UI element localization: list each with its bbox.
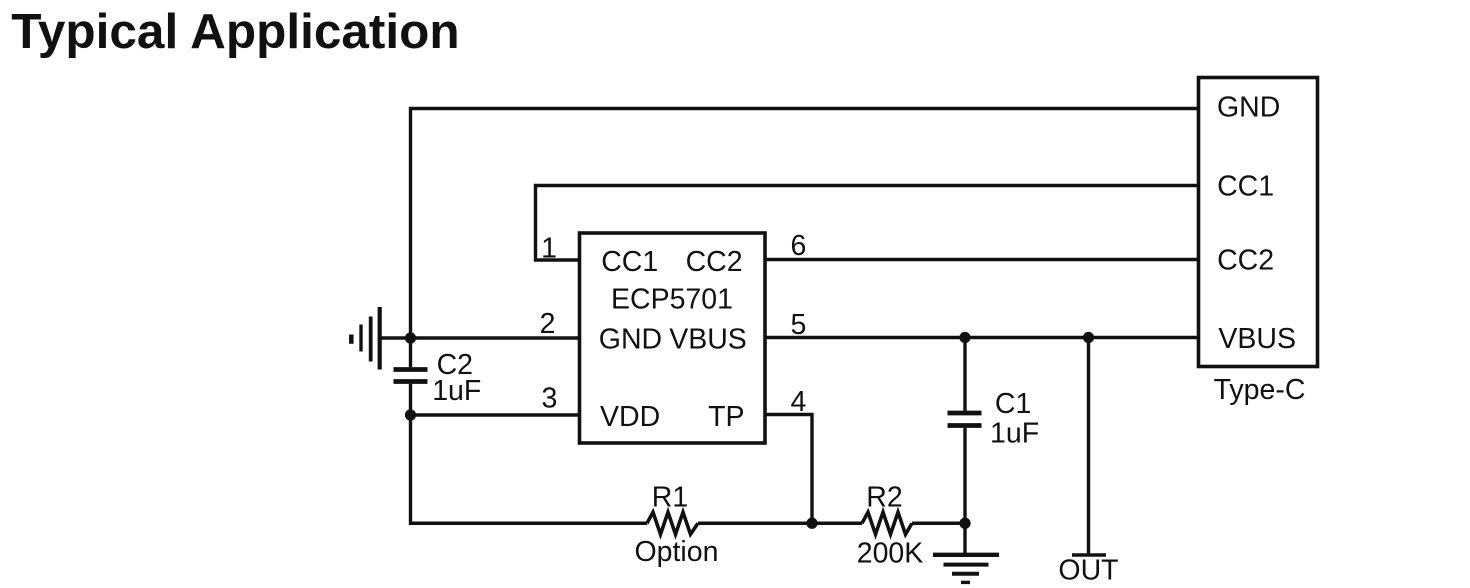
svg-text:Typical Application: Typical Application [11,4,459,59]
svg-text:CC1: CC1 [601,246,658,278]
svg-text:200K: 200K [857,538,924,570]
svg-text:VBUS: VBUS [1218,323,1296,355]
svg-text:GND: GND [1217,92,1280,124]
svg-text:1uF: 1uF [990,418,1039,450]
svg-text:CC2: CC2 [686,246,743,278]
svg-text:CC1: CC1 [1217,170,1274,202]
svg-text:VDD: VDD [600,401,660,433]
svg-text:Option: Option [635,536,719,568]
svg-text:1: 1 [541,233,557,265]
svg-text:TP: TP [708,401,744,433]
svg-text:R1: R1 [652,482,688,514]
svg-text:OUT: OUT [1058,555,1118,587]
svg-text:2: 2 [540,308,556,340]
svg-text:C1: C1 [995,388,1031,420]
svg-text:1uF: 1uF [432,375,481,407]
svg-text:4: 4 [791,386,807,418]
svg-text:6: 6 [791,230,807,262]
svg-text:ECP5701: ECP5701 [611,284,733,316]
svg-text:GND: GND [599,324,662,356]
svg-text:CC2: CC2 [1217,244,1274,276]
svg-text:Type-C: Type-C [1214,374,1306,406]
svg-text:5: 5 [791,309,807,341]
svg-text:R2: R2 [866,482,902,514]
svg-text:3: 3 [542,383,558,415]
svg-text:VBUS: VBUS [669,324,747,356]
